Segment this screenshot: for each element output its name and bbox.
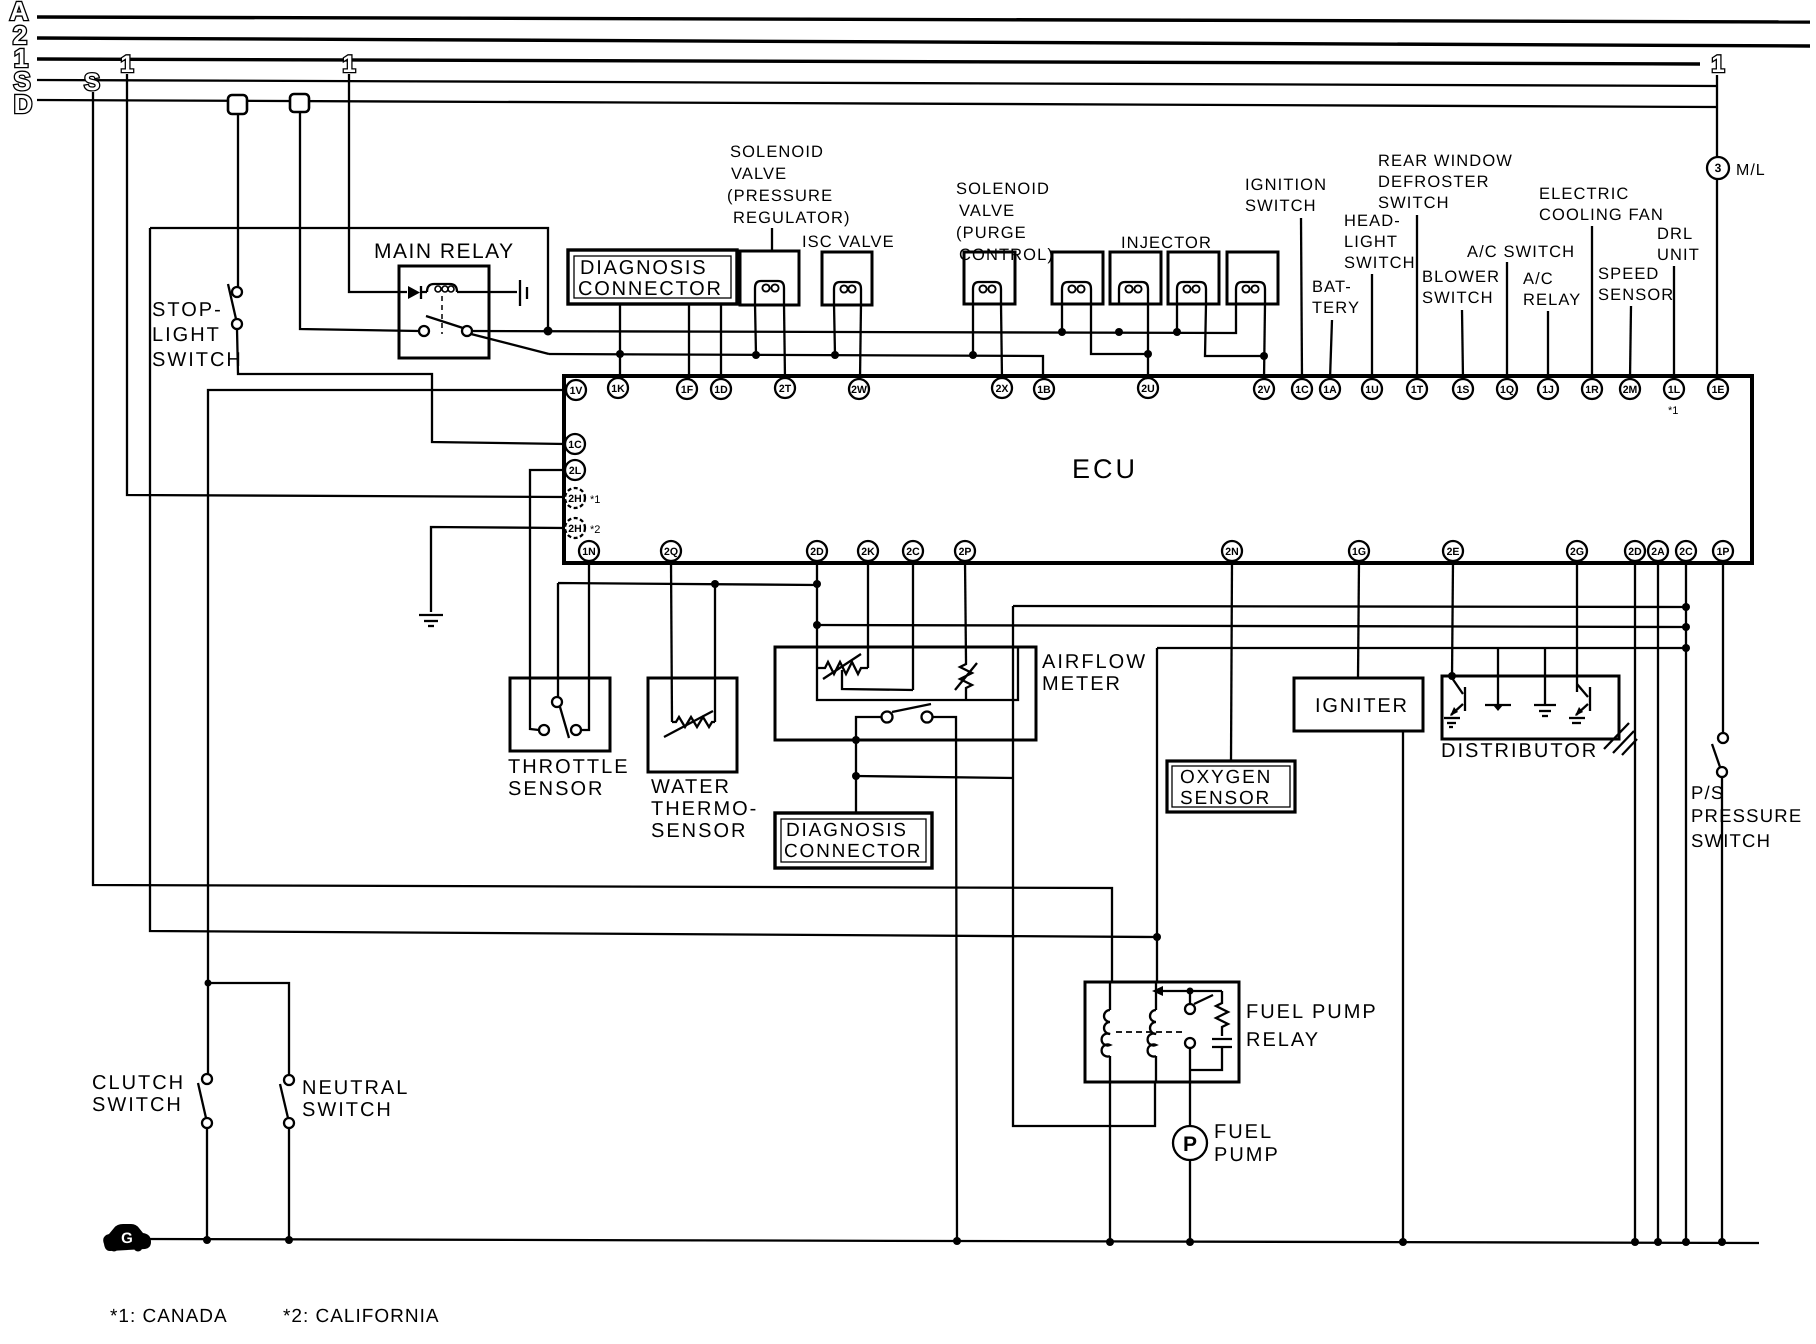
pin 1L [1664, 379, 1684, 399]
airflow wiper tap [842, 670, 913, 690]
svg-text:2C: 2C [906, 546, 920, 558]
pin 1N [579, 541, 599, 561]
pin 2E [1443, 541, 1463, 561]
wire coil1 to ground bus [1109, 1082, 1111, 1242]
svg-text:*1: CANADA: *1: CANADA [110, 1306, 228, 1327]
leader a/c relay to ECU 1J [1547, 311, 1549, 379]
injector box 1 [1052, 252, 1103, 304]
svg-text:3: 3 [1715, 161, 1722, 175]
svg-text:METER: METER [1042, 673, 1122, 695]
svg-text:1V: 1V [570, 385, 583, 397]
svg-text:LIGHT: LIGHT [1344, 233, 1398, 251]
fuel pump relay coil 2 [1148, 983, 1156, 1082]
distributor hatch marks [1604, 723, 1637, 755]
main relay switch arm [426, 316, 463, 328]
svg-text:SOLENOID: SOLENOID [730, 143, 824, 161]
svg-text:THROTTLE: THROTTLE [508, 756, 630, 778]
svg-text:RELAY: RELAY [1246, 1029, 1320, 1051]
svg-text:S: S [84, 69, 100, 96]
svg-text:TERY: TERY [1312, 299, 1360, 317]
svg-text:1C: 1C [568, 439, 582, 451]
svg-text:2C: 2C [1679, 546, 1693, 558]
pin 2A [1648, 541, 1668, 561]
junction net-648 on 2C vertical [1682, 644, 1690, 652]
pin 2N [1222, 541, 1242, 561]
junction 1K on solenoid feed line [616, 350, 624, 358]
ground transistor 2 [1569, 717, 1585, 719]
junction purge solenoid pin on feed line [969, 351, 977, 359]
svg-text:2K: 2K [861, 546, 875, 558]
svg-text:DEFROSTER: DEFROSTER [1378, 173, 1490, 191]
leader battery to ECU 1A [1330, 320, 1332, 379]
net 606 line [1013, 606, 1686, 626]
svg-text:SWITCH: SWITCH [152, 349, 243, 371]
relay top rail [1162, 990, 1222, 992]
wire ECU 2C right to ground bus [1685, 561, 1687, 1242]
svg-text:2V: 2V [1258, 384, 1271, 396]
airflow potentiometer resistor [817, 662, 868, 674]
leader cooling fan to ECU 1R [1591, 226, 1593, 379]
pin 2K [858, 541, 878, 561]
airflow inner bracket [817, 647, 1018, 700]
wire relay arm line to solenoids and ECU 1B [549, 354, 1043, 379]
fuel pump relay box [1085, 982, 1239, 1082]
wire 1 tap right down to ECU 1E [1716, 75, 1718, 379]
svg-text:SWITCH: SWITCH [1378, 194, 1450, 212]
pin 2D right [1625, 541, 1645, 561]
net 626 line [817, 625, 1686, 627]
svg-text:*2: *2 [590, 524, 600, 536]
svg-text:1E: 1E [1712, 384, 1725, 396]
pin 2Q [661, 541, 681, 561]
svg-text:SWITCH: SWITCH [1422, 289, 1494, 307]
ECU box [564, 376, 1752, 563]
diagnosis connector (top) box [568, 250, 737, 304]
net 648 line to distributor/2C [1157, 647, 1686, 649]
junction injector 2 on feed line [1115, 328, 1123, 336]
throttle sensor switch contacts [552, 697, 562, 707]
distributor transistor 2 [1577, 684, 1588, 697]
pin 1C top [1292, 379, 1312, 399]
pin 2W [849, 379, 869, 399]
svg-text:P/S: P/S [1691, 782, 1724, 803]
coil of purge solenoid [973, 282, 1001, 304]
airflow meter switch arm [892, 704, 931, 712]
water thermo sensor box [648, 678, 737, 772]
leader DRL unit to ECU 1L [1673, 266, 1675, 379]
svg-text:DISTRIBUTOR: DISTRIBUTOR [1441, 740, 1598, 762]
svg-text:1R: 1R [1585, 384, 1599, 396]
wire D tap to stop-light switch [237, 114, 239, 287]
svg-text:1D: 1D [714, 384, 728, 396]
junction 2C / ground bus [1682, 1238, 1690, 1246]
svg-text:2M: 2M [1623, 384, 1638, 396]
ground at main relay coil [519, 280, 521, 306]
pin 2H (california) [565, 518, 585, 538]
svg-text:NEUTRAL: NEUTRAL [302, 1077, 409, 1099]
svg-text:1B: 1B [1037, 384, 1051, 396]
diode in main relay [408, 286, 420, 299]
svg-text:IGNITION: IGNITION [1245, 176, 1327, 194]
main relay switch contacts [419, 326, 429, 336]
svg-text:A/C SWITCH: A/C SWITCH [1467, 243, 1575, 261]
wire water thermo right pin [714, 584, 716, 722]
injector 3 pins [1176, 304, 1178, 332]
svg-text:SENSOR: SENSOR [1180, 788, 1271, 809]
pin 1S [1453, 379, 1473, 399]
svg-text:INJECTOR: INJECTOR [1121, 234, 1212, 252]
junction ISC valve pin on feed line [831, 351, 839, 359]
svg-text:BLOWER: BLOWER [1422, 268, 1500, 286]
pin 1T [1407, 379, 1427, 399]
body ground car symbol [103, 1224, 151, 1251]
injector 4 pins / wire to ECU 2V [1264, 304, 1265, 379]
svg-text:2A: 2A [1651, 546, 1665, 558]
wire ECU 2D into airflow meter [816, 561, 818, 668]
pin 1F [677, 379, 697, 399]
pin 2L [565, 460, 585, 480]
injector 2 pins / wire to ECU 2U [1147, 304, 1149, 379]
svg-text:SWITCH: SWITCH [92, 1094, 183, 1116]
wire neutral switch to ground bus [288, 1128, 290, 1240]
svg-text:2E: 2E [1447, 546, 1460, 558]
svg-text:RELAY: RELAY [1523, 291, 1581, 309]
svg-text:2X: 2X [996, 383, 1009, 395]
wire clutch switch to ground bus [206, 1128, 208, 1240]
M/L indicator lamp circle [1707, 157, 1729, 179]
svg-text:SENSOR: SENSOR [508, 778, 604, 800]
svg-text:VALVE: VALVE [959, 202, 1015, 220]
wire main relay output to injectors [472, 305, 1236, 333]
ISC valve box [822, 252, 872, 305]
wire ECU 1P to P/S pressure switch [1722, 561, 1724, 733]
junction relay coil 1 / ground bus [1106, 1238, 1114, 1246]
junction injector 3 on feed line [1173, 328, 1181, 336]
coil of solenoid valve 1 [755, 281, 784, 304]
pin 1G [1349, 541, 1369, 561]
main relay arm output diagonal [471, 334, 549, 354]
node junction armature wire [1153, 933, 1161, 941]
svg-text:(PRESSURE: (PRESSURE [727, 187, 833, 205]
svg-text:SENSOR: SENSOR [1598, 286, 1674, 304]
coil of injector 2 [1119, 282, 1148, 304]
svg-text:2G: 2G [1570, 546, 1584, 558]
junction neutral switch / ground bus [285, 1236, 293, 1244]
svg-text:STOP-: STOP- [152, 299, 223, 321]
svg-text:REGULATOR): REGULATOR) [733, 209, 851, 227]
pin 2C [903, 541, 923, 561]
airflow temp sensor resistor vertical [960, 660, 972, 700]
svg-text:SWITCH: SWITCH [302, 1099, 393, 1121]
svg-text:1U: 1U [1365, 384, 1378, 396]
oxygen sensor wire from ECU 2N [1231, 561, 1232, 761]
airflow meter switch contacts [882, 712, 893, 723]
connector square on D bus (main relay) [290, 94, 309, 112]
bus line A [37, 17, 1810, 22]
svg-text:1Q: 1Q [1500, 384, 1514, 396]
wire ECU 1V to clutch/neutral switches [208, 390, 566, 983]
wire ECU 2D right to ground bus [1634, 561, 1636, 1242]
wire 1 tap drop to ECU 2H [127, 74, 566, 497]
bus line S [37, 80, 1716, 86]
coil of injector 4 [1236, 282, 1265, 304]
svg-text:2D: 2D [810, 546, 824, 558]
pin 1K [608, 378, 628, 398]
wire diagnosis connector pin to ECU 1F [688, 304, 690, 379]
fuel pump relay coil 1 [1102, 982, 1110, 1082]
bus line 2 [37, 38, 1810, 46]
clutch switch wire branch [208, 983, 289, 1075]
coil of ISC valve [834, 282, 861, 304]
svg-text:THERMO-: THERMO- [651, 798, 758, 820]
airflow meter box [775, 647, 1036, 740]
svg-text:A/C: A/C [1523, 270, 1554, 288]
junction airflow switch wire / ground bus [953, 1237, 961, 1245]
wire ECU 2Q to water thermo sensor [671, 561, 672, 722]
svg-text:1J: 1J [1542, 384, 1554, 396]
junction P/S switch / ground bus [1718, 1238, 1726, 1246]
svg-text:1C: 1C [1295, 384, 1309, 396]
svg-text:CONNECTOR: CONNECTOR [784, 841, 922, 862]
svg-text:AIRFLOW: AIRFLOW [1042, 651, 1147, 673]
svg-text:(PURGE: (PURGE [956, 224, 1027, 242]
relay capacitor [1212, 1038, 1232, 1040]
junction 2A / ground bus [1654, 1238, 1662, 1246]
pin 2M [1620, 379, 1640, 399]
leader a/c switch to ECU 1Q [1506, 262, 1508, 379]
wire down to fuel pump relay coil 2 [1013, 626, 1155, 1126]
junction net-606 on 2C vertical [1682, 603, 1690, 611]
svg-text:VALVE: VALVE [731, 165, 787, 183]
solenoid valve 1 pins [755, 304, 756, 355]
svg-text:IGNITER: IGNITER [1315, 695, 1409, 717]
svg-text:1K: 1K [611, 383, 625, 395]
wire 648 down to fuel pump relay [1156, 648, 1158, 983]
pin 2G [1567, 541, 1587, 561]
wire 1 tap to main relay coil [349, 74, 407, 292]
svg-text:CLUTCH: CLUTCH [92, 1072, 185, 1094]
wire diagnosis branch to fuel relay coil2 line [856, 776, 1014, 778]
solenoid valve (pressure regulator) box [740, 251, 799, 305]
bus line D [37, 100, 1717, 107]
svg-text:1: 1 [120, 51, 133, 78]
stop-light switch [232, 287, 242, 297]
svg-text:*1: *1 [1668, 405, 1678, 417]
wire routing top edge to main relay output [150, 228, 548, 331]
svg-text:CONTROL): CONTROL) [959, 246, 1054, 264]
pin 1U [1362, 379, 1382, 399]
wire ECU 2P into airflow meter [965, 561, 966, 660]
pin 1D [711, 379, 731, 399]
wire igniter to ground bus [1402, 731, 1404, 1242]
svg-text:1: 1 [1711, 51, 1724, 78]
main relay armature dashed link [441, 296, 443, 334]
svg-text:2U: 2U [1141, 383, 1154, 395]
pin 1R [1582, 379, 1602, 399]
svg-text:PUMP: PUMP [1214, 1144, 1280, 1166]
svg-text:SWITCH: SWITCH [1245, 197, 1317, 215]
purge solenoid pins [972, 304, 974, 355]
svg-text:1: 1 [342, 51, 355, 78]
pin 2T [775, 378, 795, 398]
svg-text:CONNECTOR: CONNECTOR [578, 278, 723, 300]
node junction at main relay output [544, 327, 553, 336]
injector box 3 [1168, 252, 1219, 304]
distributor pickup ground 1 [1497, 648, 1499, 704]
svg-text:SWITCH: SWITCH [1344, 254, 1416, 272]
relay armature dashed link [1116, 1031, 1184, 1033]
wire P/S switch to ground bus [1721, 777, 1723, 1242]
chassis ground for 2H [419, 614, 443, 616]
svg-text:1L: 1L [1668, 384, 1681, 396]
wire throttle sensor common to 2D net [558, 583, 817, 702]
pin 1J [1538, 379, 1558, 399]
wire ECU 2A to ground bus [1657, 561, 1659, 1242]
pin 1B [1034, 379, 1054, 399]
svg-text:SENSOR: SENSOR [651, 820, 747, 842]
relay switch contacts [1185, 1004, 1195, 1014]
svg-text:DIAGNOSIS: DIAGNOSIS [580, 257, 707, 279]
ground transistor 1 [1444, 717, 1460, 719]
svg-text:BAT-: BAT- [1312, 278, 1352, 296]
pin 1V [566, 380, 586, 400]
svg-text:DRL: DRL [1657, 225, 1693, 243]
diagnosis connector (lower) box [775, 813, 932, 868]
wire airflow switch right to ground bus [933, 717, 957, 1241]
pin 1C left [565, 434, 585, 454]
pin 2C right [1676, 541, 1696, 561]
svg-text:SOLENOID: SOLENOID [956, 180, 1050, 198]
svg-text:COOLING FAN: COOLING FAN [1539, 206, 1664, 224]
pin 1P [1713, 541, 1733, 561]
svg-text:FUEL PUMP: FUEL PUMP [1246, 1001, 1378, 1023]
leader speed sensor to ECU 2M [1630, 306, 1631, 379]
igniter box [1294, 678, 1423, 731]
main relay box [399, 266, 489, 358]
throttle sensor box [510, 678, 610, 751]
thermistor in water thermo sensor [672, 717, 715, 727]
svg-text:WATER: WATER [651, 776, 731, 798]
pin 1A [1320, 379, 1340, 399]
wire diagnosis connector pin to ECU 1D [720, 304, 722, 379]
wire stop-light switch to ECU 1C [237, 329, 565, 444]
svg-text:M/L: M/L [1736, 162, 1766, 179]
fuel pump motor [1173, 1126, 1207, 1160]
svg-text:1N: 1N [582, 546, 595, 558]
svg-text:1T: 1T [1411, 384, 1424, 396]
leader ignition switch to ECU 1C [1301, 218, 1302, 379]
svg-text:1P: 1P [1717, 546, 1730, 558]
junction injector 1 on feed line [1058, 328, 1066, 336]
pin 1Q [1497, 379, 1517, 399]
junction water thermo on 2D net [711, 580, 719, 588]
svg-text:2T: 2T [779, 383, 792, 395]
P/S pressure switch [1718, 733, 1728, 743]
wire relay switch to fuel pump [1189, 1048, 1191, 1126]
bus line 1 [37, 59, 1700, 64]
junction igniter / ground bus [1399, 1238, 1407, 1246]
svg-text:1G: 1G [1352, 546, 1366, 558]
svg-text:*2: CALIFORNIA: *2: CALIFORNIA [283, 1306, 440, 1327]
wire ECU 2G to distributor [1576, 561, 1578, 692]
clutch switch [202, 1074, 212, 1084]
junction fuel pump / ground bus [1186, 1238, 1194, 1246]
svg-text:2H: 2H [568, 493, 581, 505]
svg-text:ELECTRIC: ELECTRIC [1539, 185, 1629, 203]
leader defroster to ECU 1T [1416, 215, 1418, 379]
coil of injector 3 [1177, 282, 1206, 304]
svg-text:OXYGEN: OXYGEN [1180, 767, 1272, 788]
neutral switch [284, 1075, 294, 1085]
svg-text:ECU: ECU [1072, 454, 1138, 484]
svg-text:1S: 1S [1457, 384, 1470, 396]
svg-text:ISC VALVE: ISC VALVE [802, 233, 895, 251]
svg-text:DIAGNOSIS: DIAGNOSIS [786, 820, 908, 841]
wire fuel pump to ground bus [1189, 1160, 1191, 1242]
wire ECU 2L to throttle sensor [530, 470, 565, 730]
leader blower to ECU 1S [1462, 310, 1463, 379]
wire D tap to main relay contact [300, 112, 419, 331]
svg-text:LIGHT: LIGHT [152, 324, 221, 346]
svg-text:2W: 2W [851, 384, 867, 396]
wire ECU 1N to throttle sensor [582, 561, 589, 730]
svg-text:REAR WINDOW: REAR WINDOW [1378, 152, 1513, 170]
svg-text:UNIT: UNIT [1657, 246, 1700, 264]
pin 2U [1138, 378, 1158, 398]
svg-text:PRESSURE: PRESSURE [1691, 805, 1802, 826]
leader solenoid valve 1 [771, 228, 773, 251]
svg-text:G: G [121, 1230, 133, 1247]
pin 1E [1708, 379, 1728, 399]
wire ECU 2H california to ground [431, 527, 565, 612]
distributor box [1442, 676, 1619, 739]
svg-text:MAIN RELAY: MAIN RELAY [374, 240, 515, 263]
svg-text:1F: 1F [681, 384, 694, 396]
svg-text:P: P [1183, 1133, 1197, 1156]
distributor pickup ground 2 [1544, 648, 1546, 704]
coil of injector 1 [1062, 282, 1091, 304]
throttle sensor switch arm [560, 707, 569, 738]
wire ECU 2K into airflow meter [867, 561, 869, 668]
connector square on D bus (stop-light) [228, 95, 247, 114]
ISC valve pins [834, 304, 835, 355]
igniter wire from ECU 1G [1358, 561, 1359, 678]
pin 2X [992, 378, 1012, 398]
svg-text:1A: 1A [1323, 384, 1337, 396]
svg-text:2D: 2D [1628, 546, 1642, 558]
wire ECU 2C to airflow wiper [912, 561, 914, 690]
junction solenoid valve 1 pin on feed line [752, 351, 760, 359]
svg-text:D: D [14, 89, 33, 119]
injector box 2 [1110, 252, 1161, 304]
svg-text:2L: 2L [569, 465, 582, 477]
svg-text:2P: 2P [959, 546, 972, 558]
svg-text:2N: 2N [1225, 546, 1238, 558]
svg-text:2H: 2H [568, 523, 581, 535]
wire left routing down to fuel pump relay armature [150, 228, 1157, 937]
pin 2V [1254, 379, 1274, 399]
svg-text:SWITCH: SWITCH [1691, 830, 1771, 851]
wire airflow switch left to diagnosis connector [856, 717, 881, 813]
pin 2D [807, 541, 827, 561]
svg-text:FUEL: FUEL [1214, 1121, 1273, 1143]
junction 2D / ground bus [1631, 1238, 1639, 1246]
distributor transistor 1 [1452, 678, 1463, 694]
svg-text:2Q: 2Q [664, 546, 678, 558]
wire ECU 2E to distributor [1452, 561, 1453, 678]
pin 2H (canada) [565, 488, 585, 508]
wire diagnosis connector pin to ECU 1K [619, 304, 621, 379]
